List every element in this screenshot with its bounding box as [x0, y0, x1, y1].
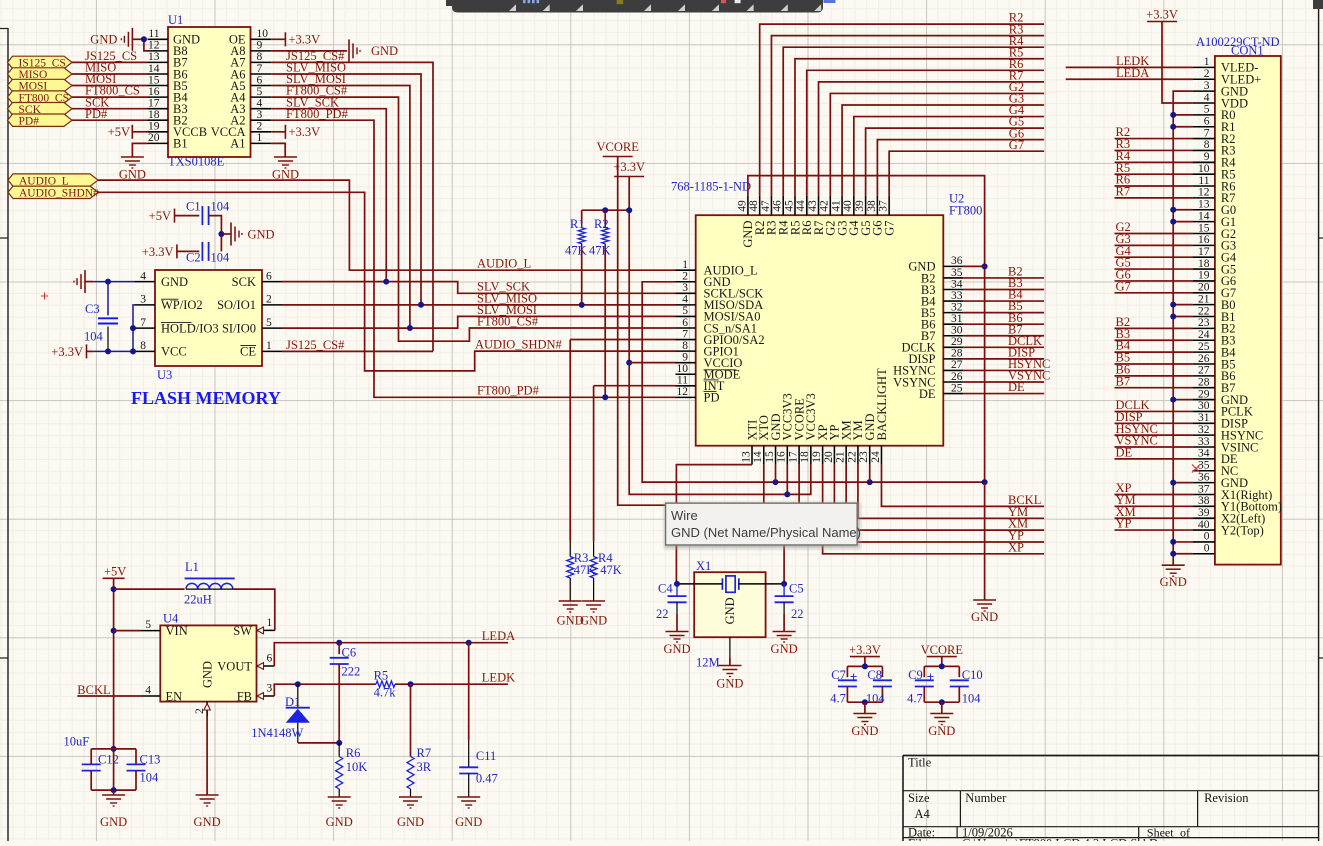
- svg-text:3: 3: [257, 109, 263, 121]
- wire SLV_MOSI from U1 A5: [271, 86, 410, 329]
- svg-text:GND: GND: [161, 275, 188, 289]
- svg-text:24: 24: [1198, 329, 1210, 341]
- wire R5 to LEDK: [395, 683, 508, 685]
- svg-text:104: 104: [211, 251, 231, 265]
- svg-text:C10: C10: [962, 668, 983, 682]
- svg-text:R5: R5: [374, 668, 389, 682]
- ground left of U3: [84, 270, 86, 293]
- wire B5 from U2: [963, 312, 1044, 314]
- power +3.3V at C2: [142, 244, 177, 259]
- svg-text:GND: GND: [201, 661, 215, 688]
- svg-text:+: +: [927, 669, 934, 684]
- svg-text:U3: U3: [157, 368, 172, 382]
- svg-text:34: 34: [951, 278, 963, 290]
- crystal X1 12M: [694, 559, 765, 637]
- wire C7/C8 top: [847, 665, 882, 667]
- wire U2 pin36 to GND rail: [963, 265, 984, 267]
- wire FT800_PD# from U1 A2: [271, 120, 675, 397]
- svg-text:GND: GND: [397, 815, 424, 829]
- wire HSYNC to CON1 pin 32: [1115, 434, 1193, 436]
- node R6 top: [336, 740, 342, 746]
- svg-text:19: 19: [811, 451, 823, 463]
- svg-text:C:\Users\..\FT800 LCD 4.3 LCD.: C:\Users\..\FT800 LCD 4.3 LCD.SchDoc: [962, 837, 1170, 842]
- svg-text:36: 36: [1198, 471, 1210, 483]
- svg-text:+5V: +5V: [104, 565, 126, 579]
- svg-text:26: 26: [951, 371, 963, 383]
- node GND pin15: [773, 479, 779, 485]
- svg-text:12M: 12M: [696, 656, 720, 670]
- wire to ground: [113, 790, 115, 795]
- port AUDIO_SHDN#: [8, 186, 98, 198]
- wire to L1: [114, 588, 185, 590]
- svg-text:LEDA: LEDA: [482, 629, 515, 643]
- node +3.3V pin16: [784, 491, 790, 497]
- wire +3.3V rail down to FT800 VCC3V3: [629, 177, 811, 495]
- wire G5 from U2 pin 39: [866, 128, 1045, 196]
- svg-text:37: 37: [878, 200, 890, 212]
- svg-text:2: 2: [194, 708, 206, 714]
- svg-text:VCORE: VCORE: [921, 643, 964, 657]
- wire XM from U2: [846, 465, 1044, 530]
- capacitor C2 104: [186, 242, 230, 265]
- no-connect marker pin 35: [1192, 465, 1200, 473]
- svg-text:6: 6: [257, 74, 263, 86]
- wire crystal right: [739, 583, 784, 585]
- svg-text:C12: C12: [98, 753, 119, 767]
- svg-text:HOLD/IO3: HOLD/IO3: [161, 321, 219, 335]
- capacitor C9 4.7 (polarized): [907, 666, 934, 705]
- svg-text:GND: GND: [580, 614, 607, 628]
- svg-text:10: 10: [677, 363, 689, 375]
- svg-text:X1: X1: [696, 559, 711, 573]
- svg-text:8: 8: [140, 340, 146, 352]
- wire flash CE to JS125_CS#: [282, 350, 433, 352]
- svg-text:C8: C8: [867, 668, 882, 682]
- resistor R6 10K: [336, 743, 368, 797]
- svg-text:R1: R1: [570, 217, 585, 231]
- node GND bus pin 42: [1170, 551, 1176, 557]
- wire R1 to MISO/SDA: [581, 247, 583, 305]
- svg-text:17: 17: [148, 98, 160, 110]
- ground below U1 B1: [119, 157, 146, 182]
- svg-text:GND: GND: [971, 610, 998, 624]
- wire VSYNC to CON1 pin 33: [1115, 446, 1193, 448]
- svg-text:L1: L1: [185, 560, 199, 574]
- wire U1 pin12 to pin11 junction: [144, 39, 148, 51]
- svg-text:5: 5: [682, 305, 688, 317]
- svg-text:JS125_CS#: JS125_CS#: [286, 338, 345, 352]
- svg-text:2: 2: [1204, 68, 1210, 80]
- svg-text:AUDIO_SHDN#: AUDIO_SHDN#: [19, 188, 99, 200]
- svg-text:15: 15: [1198, 222, 1210, 234]
- wire D1 to R6: [298, 742, 339, 744]
- wire AUDIO_SHDN# to FT800 pin8: [98, 192, 676, 371]
- wire GPIO0 row: [570, 339, 675, 341]
- wire GND bus to pin 21: [1173, 304, 1192, 306]
- power flag +3.3V rail: [613, 160, 645, 177]
- svg-text:768-1185-1-ND: 768-1185-1-ND: [671, 180, 751, 194]
- svg-text:13: 13: [148, 51, 160, 63]
- svg-text:GND: GND: [90, 33, 117, 47]
- IC U3 flash memory: [135, 270, 282, 382]
- svg-text:1: 1: [682, 259, 688, 271]
- svg-text:5: 5: [257, 86, 263, 98]
- svg-text:+3.3V: +3.3V: [289, 33, 321, 47]
- svg-text:29: 29: [951, 336, 963, 348]
- svg-text:1: 1: [257, 132, 263, 144]
- wire R6 to CON1 pin 11: [1115, 185, 1193, 187]
- wire GND bus to pin 41: [1173, 541, 1192, 543]
- svg-text:10: 10: [257, 28, 269, 40]
- svg-text:+3.3V: +3.3V: [289, 125, 321, 139]
- port SCK: [8, 103, 73, 115]
- svg-text:5: 5: [145, 619, 151, 631]
- ground below C9/C10: [928, 714, 955, 738]
- svg-text:GND: GND: [771, 642, 798, 656]
- ground below C4: [663, 632, 690, 657]
- node C3 top: [105, 279, 111, 285]
- wire GND bus to pin 29: [1173, 399, 1192, 401]
- svg-text:DE: DE: [1116, 445, 1133, 459]
- svg-text:16: 16: [1198, 234, 1210, 246]
- svg-text:47: 47: [760, 200, 772, 212]
- svg-text:1: 1: [1204, 56, 1210, 68]
- wire pin15 to GND rail: [775, 465, 777, 483]
- node +3.3V bottom: [862, 699, 868, 705]
- node VIN: [111, 628, 117, 634]
- svg-text:GND: GND: [100, 815, 127, 829]
- svg-text:PD#: PD#: [19, 115, 40, 127]
- svg-text:26: 26: [1198, 353, 1210, 365]
- svg-text:17: 17: [1198, 246, 1210, 258]
- wire DCLK from U2: [963, 346, 1044, 348]
- svg-text:21: 21: [835, 451, 847, 463]
- wire R4 from U2 pin 46: [783, 47, 1044, 195]
- svg-text:B7: B7: [1116, 374, 1131, 388]
- node D1 top: [295, 681, 301, 687]
- wire G6 from U2 pin 38: [877, 140, 1044, 196]
- svg-text:+3.3V: +3.3V: [1146, 8, 1178, 22]
- svg-text:U1: U1: [168, 13, 183, 27]
- svg-text:23: 23: [858, 451, 870, 463]
- ground below R6: [326, 797, 353, 829]
- node GND bus pin 41: [1170, 539, 1176, 545]
- svg-text:24: 24: [870, 451, 882, 463]
- port IS125_CS: [8, 56, 73, 68]
- wire VOUT to LEDA: [274, 643, 508, 666]
- svg-text:28: 28: [1198, 377, 1210, 389]
- node GND bus pin 21: [1170, 302, 1176, 308]
- port MOSI: [8, 79, 73, 91]
- capacitor C13 104: [127, 749, 161, 790]
- wire GND bus to pin 13: [1173, 209, 1192, 211]
- resistor R5 4.7k: [374, 668, 397, 699]
- wire +3.3V to VDD: [1162, 22, 1193, 103]
- svg-text:10K: 10K: [346, 760, 368, 774]
- svg-text:PD: PD: [704, 391, 720, 405]
- svg-text:GND: GND: [716, 677, 743, 691]
- svg-text:2: 2: [682, 271, 688, 283]
- wire port FT800_CS to U1: [72, 96, 148, 98]
- svg-text:8: 8: [1204, 139, 1210, 151]
- svg-text:41: 41: [830, 200, 842, 212]
- svg-text:104: 104: [140, 771, 160, 785]
- svg-text:33: 33: [1198, 436, 1210, 448]
- wire U1 A8 to ground: [271, 50, 347, 52]
- wire B3 from U2: [963, 289, 1044, 291]
- svg-text:4: 4: [257, 98, 263, 110]
- power flag VCORE: [921, 643, 964, 667]
- svg-text:C11: C11: [476, 749, 496, 763]
- svg-text:CON1: CON1: [1231, 44, 1264, 58]
- wire BCKL to EN: [77, 695, 140, 697]
- svg-text:38: 38: [1198, 495, 1210, 507]
- svg-text:12: 12: [148, 40, 160, 52]
- node GND down: [982, 479, 988, 485]
- svg-text:A4: A4: [915, 807, 931, 821]
- ground at C1/C2: [231, 223, 275, 246]
- wire crystal left: [677, 583, 722, 585]
- svg-text:C3: C3: [85, 302, 100, 316]
- svg-text:of: of: [1180, 825, 1190, 839]
- svg-text:0.47: 0.47: [476, 772, 498, 786]
- capacitor C5 22: [775, 582, 804, 632]
- svg-text:17: 17: [787, 451, 799, 463]
- svg-text:9: 9: [1204, 151, 1210, 163]
- svg-text:1: 1: [266, 340, 272, 352]
- svg-text:C5: C5: [789, 582, 804, 596]
- IC U1 TXS0108E level shifter: [148, 13, 272, 169]
- svg-text:104: 104: [211, 200, 231, 214]
- ground at U1 pin 11: [90, 28, 144, 51]
- capacitor C11 0.47: [459, 643, 498, 797]
- wire gnd to U3 GND pin: [85, 281, 135, 283]
- wire VCORE rail to FT800 pin17: [618, 157, 799, 506]
- wire R3 from U2 pin 47: [771, 36, 1044, 196]
- wire DCLK to CON1 pin 30: [1115, 410, 1193, 412]
- wire +5V to C1: [175, 215, 200, 217]
- diode D1 1N4148W: [251, 684, 310, 743]
- svg-text:C6: C6: [342, 646, 357, 660]
- svg-text:FLASH MEMORY: FLASH MEMORY: [131, 388, 281, 408]
- svg-text:19: 19: [148, 121, 160, 133]
- ground below R4: [580, 601, 607, 628]
- ground at U1 A8: [349, 39, 398, 62]
- svg-text:Y2(Top): Y2(Top): [1221, 523, 1264, 537]
- wire B4 to CON1 pin 25: [1115, 351, 1193, 353]
- IC U2 FT800: [671, 180, 982, 465]
- svg-text:GND: GND: [851, 724, 878, 738]
- wire to gnd: [864, 702, 866, 713]
- wire G2 from U2 pin 42: [830, 93, 1044, 195]
- svg-text:CE: CE: [240, 345, 256, 359]
- svg-text:GND (Net Name/Physical Name): GND (Net Name/Physical Name): [671, 525, 861, 540]
- svg-text:D1: D1: [285, 695, 300, 709]
- svg-text:10uF: 10uF: [64, 735, 90, 749]
- node C12 top: [111, 746, 117, 752]
- wire to gnd: [941, 702, 943, 713]
- ground below R7: [397, 797, 424, 829]
- wire BCKL from U2: [881, 465, 1044, 507]
- svg-text:33: 33: [951, 290, 963, 302]
- svg-text:+3.3V: +3.3V: [142, 245, 174, 259]
- wire G3 to CON1 pin 16: [1115, 244, 1193, 246]
- svg-text:4.7k: 4.7k: [374, 686, 397, 700]
- wire VCCIO: [629, 362, 675, 364]
- capacitor C8 104: [866, 666, 892, 705]
- resistor R1 47K: [565, 210, 587, 257]
- svg-text:8: 8: [682, 340, 688, 352]
- svg-text:B1: B1: [173, 137, 188, 151]
- svg-text:VIN: VIN: [166, 624, 188, 638]
- port AUDIO_L: [8, 174, 98, 186]
- svg-text:4: 4: [140, 270, 146, 282]
- svg-text:22: 22: [791, 607, 804, 621]
- svg-text:32: 32: [951, 301, 963, 313]
- ground below C5: [771, 632, 798, 657]
- wire C7/C8 bottom: [847, 701, 882, 703]
- wire C1 to GND branch: [209, 216, 222, 252]
- svg-text:SCK: SCK: [232, 275, 256, 289]
- svg-text:49: 49: [736, 200, 748, 212]
- node R2 junction: [602, 394, 608, 400]
- svg-text:Title: Title: [908, 756, 932, 770]
- svg-text:8: 8: [257, 51, 263, 63]
- wire R6 from U2 pin 44: [807, 70, 1044, 195]
- svg-text:32: 32: [1198, 424, 1210, 436]
- ground mid right: [973, 599, 996, 601]
- wire port MOSI to U1: [72, 85, 148, 87]
- wire U3 WP/HOLD to VCC: [133, 305, 135, 352]
- wire R1/R2 top rail: [582, 209, 630, 211]
- wire B3 to CON1 pin 24: [1115, 339, 1193, 341]
- port FT800_CS: [8, 91, 73, 103]
- svg-text:GND: GND: [455, 815, 482, 829]
- wire YP to CON1 pin 40: [1115, 529, 1193, 531]
- svg-text:16: 16: [776, 451, 788, 463]
- capacitor C3 104: [84, 282, 118, 352]
- svg-text:3: 3: [682, 282, 688, 294]
- wire R2 to CON1 pin 7: [1115, 138, 1193, 140]
- svg-text:6: 6: [682, 317, 688, 329]
- svg-text:LEDK: LEDK: [482, 671, 515, 685]
- wire GND bus to pin 6: [1173, 126, 1192, 128]
- svg-text:22: 22: [846, 451, 858, 463]
- wire flash SCK to FT800 SCK: [282, 282, 676, 294]
- svg-text:XP: XP: [1008, 540, 1024, 554]
- svg-text:13: 13: [1198, 199, 1210, 211]
- svg-text:C4: C4: [658, 582, 673, 596]
- svg-text:G7: G7: [1009, 138, 1024, 152]
- IC U4 regulator: [140, 612, 274, 717]
- wire GND bus to pin 36: [1173, 482, 1192, 484]
- node VCC tie: [130, 348, 136, 354]
- svg-text:42: 42: [819, 200, 831, 212]
- node SLV_MISO junction: [418, 302, 424, 308]
- wire YP from U2: [834, 465, 1044, 542]
- wire C12/C13 top: [91, 748, 136, 750]
- wire R4 to CON1 pin 9: [1115, 161, 1193, 163]
- svg-text:+3.3V: +3.3V: [849, 643, 881, 657]
- wire R5 from U2 pin 45: [795, 59, 1044, 196]
- svg-text:20: 20: [148, 132, 160, 144]
- svg-text:25: 25: [951, 382, 963, 394]
- wire GPIO0 to R3: [569, 340, 571, 542]
- node GND bus pin 36: [1170, 480, 1176, 486]
- svg-text:LEDA: LEDA: [1116, 66, 1149, 80]
- svg-text:10: 10: [1198, 163, 1210, 175]
- svg-text:15: 15: [148, 74, 160, 86]
- ground below U1 A1: [272, 157, 299, 182]
- svg-text:4.7: 4.7: [830, 692, 846, 706]
- svg-text:AUDIO_L: AUDIO_L: [477, 257, 531, 271]
- svg-text:VOUT: VOUT: [217, 659, 252, 673]
- power +5V at C1: [149, 209, 175, 223]
- node C6 top: [336, 640, 342, 646]
- svg-text:GND: GND: [371, 44, 398, 58]
- power +3.3V at CON1: [1146, 8, 1178, 22]
- capacitor C7 4.7 (polarized): [830, 666, 857, 705]
- svg-text:29: 29: [1198, 388, 1210, 400]
- svg-text:14: 14: [148, 63, 160, 75]
- wire GND bus to pin 5: [1173, 114, 1192, 116]
- svg-text:18: 18: [148, 109, 160, 121]
- svg-text:31: 31: [1198, 412, 1210, 424]
- svg-text:BCKL: BCKL: [77, 683, 110, 697]
- svg-text:9: 9: [682, 351, 688, 363]
- svg-text:0: 0: [1204, 531, 1210, 543]
- power +3.3V at U1 VCCA: [271, 125, 320, 139]
- svg-text:GND: GND: [928, 724, 955, 738]
- svg-text:4: 4: [1204, 92, 1210, 104]
- node R2 top: [602, 207, 608, 213]
- svg-text:DE: DE: [919, 387, 936, 401]
- wire YM to CON1 pin 38: [1115, 505, 1193, 507]
- wire G4 to CON1 pin 17: [1115, 256, 1193, 258]
- tooltip Wire GND: [663, 501, 863, 551]
- wire R7 from U2 pin 43: [819, 82, 1045, 196]
- svg-text:40: 40: [842, 200, 854, 212]
- svg-text:12: 12: [1198, 187, 1210, 199]
- svg-text:5: 5: [266, 317, 272, 329]
- wire pin23 to GND rail: [869, 465, 871, 483]
- node C1/C2 gnd: [218, 231, 224, 237]
- svg-text:47K: 47K: [600, 563, 622, 577]
- svg-text:43: 43: [807, 200, 819, 212]
- wire DE to CON1 pin 34: [1115, 458, 1193, 460]
- wire G7 to CON1 pin 20: [1115, 292, 1193, 294]
- wire SLV_SCK from U1 A3: [271, 109, 386, 282]
- wire FB to LEDK row: [274, 684, 376, 696]
- wire port SCK to U1: [72, 108, 148, 110]
- svg-text:+3.3V: +3.3V: [51, 345, 83, 359]
- wire YM from U2: [858, 465, 1044, 519]
- svg-text:C1: C1: [186, 200, 201, 214]
- wire B7 from U2: [963, 335, 1044, 337]
- node C12 bottom: [111, 787, 117, 793]
- ground below CON1: [1162, 564, 1185, 566]
- svg-text:G7: G7: [882, 221, 896, 236]
- svg-text:37: 37: [1198, 483, 1210, 495]
- svg-text:GND: GND: [248, 227, 275, 241]
- svg-text:34: 34: [1198, 448, 1210, 460]
- resistor R7 3R: [407, 684, 432, 797]
- svg-text:1N4148W: 1N4148W: [251, 726, 303, 740]
- wire U1 A1 to ground: [271, 143, 285, 157]
- svg-text:FT800: FT800: [949, 204, 982, 218]
- wire DISP from U2: [963, 358, 1044, 360]
- svg-text:22: 22: [656, 607, 669, 621]
